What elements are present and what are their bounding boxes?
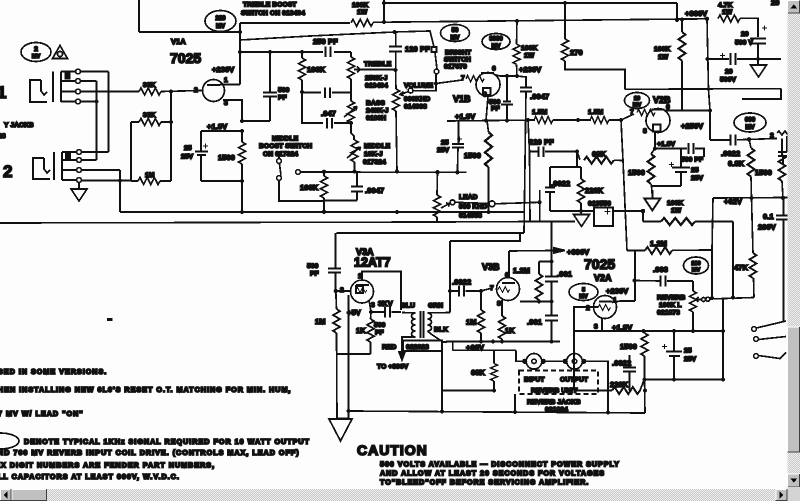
svg-text:MV: MV [451,36,460,42]
svg-text:SWITCH ON 013404: SWITCH ON 013404 [241,10,305,17]
resistor 1500 (right) [779,139,786,199]
svg-text:RED: RED [382,344,396,351]
wire vertical j1-j2 b [96,81,98,160]
svg-text:220: 220 [215,16,226,22]
junction dot [479,289,483,293]
junction dot [619,118,623,122]
ground (V2B cathode) [645,186,661,211]
junction dot [240,210,244,214]
svg-text:7025: 7025 [170,50,201,66]
pin labels V2A [586,297,617,331]
svg-text:MV: MV [692,268,701,274]
wire y241 link [450,233,520,241]
svg-text:100K: 100K [667,200,683,207]
wire between jacks [543,360,566,362]
svg-text:1W: 1W [357,9,368,16]
junction dot [721,329,725,333]
junction dot [238,30,242,34]
text 100K 1W (c) [667,200,683,215]
wire second drop [337,295,349,419]
bright switch contact square [432,47,437,52]
right edge switch contacts [752,321,786,359]
wire 60V lower rail [453,342,516,351]
svg-text:100K: 100K [300,183,319,192]
svg-text:BLU: BLU [401,303,415,310]
capacitor 250 PF [326,47,331,58]
capacitor 500 PF (V3A grid) [328,233,341,291]
wire screen node [707,58,781,60]
junction dot [576,118,580,122]
junction dot [300,90,304,94]
svg-text:7: 7 [461,75,465,82]
svg-text:013556: 013556 [588,201,611,208]
junction dot [94,99,98,103]
junction dot [675,18,679,22]
junction dot [731,295,735,299]
text 20 500V (b) [720,69,736,84]
svg-text:1M: 1M [145,172,155,179]
svg-text:0189H: 0189H [366,115,386,122]
capacitor 25/25V (V2B) [669,149,690,187]
long wire y222 [0,222,575,224]
text 4.7K 1W [718,2,733,16]
svg-text:25V: 25V [437,147,450,154]
text RED 022923 [382,344,429,351]
svg-text:47K: 47K [734,263,749,272]
wire tone return y121 [242,120,270,122]
wire jack2 c2 [82,159,97,161]
svg-text:1.2M: 1.2M [650,239,667,248]
svg-text:1W: 1W [524,53,535,60]
wire V2B mixer vertical [621,120,627,251]
text 100K 1W (V1B) [521,45,537,60]
svg-text:7: 7 [490,285,494,292]
junction dot [691,329,695,333]
wire x577 drop [576,152,578,168]
wire top-left vertical [138,0,140,32]
svg-text:1K: 1K [356,326,366,335]
capacitor 220 PF [530,147,578,158]
svg-text:TO"BLEED"OFF BEFORE SERVICING: TO"BLEED"OFF BEFORE SERVICING AMPLIFIER. [380,478,589,487]
svg-text:TREBLE: TREBLE [364,61,392,68]
svg-text:100K L: 100K L [659,302,682,309]
wire box ground stub [514,394,516,412]
junction dot [781,196,785,200]
dashed box reverb unit [519,371,598,395]
wire reverb return drop [722,299,724,380]
svg-text:.0022: .0022 [551,179,570,188]
junction dot [680,18,684,22]
wire +60V rail [446,341,560,343]
svg-text:.0022: .0022 [721,149,740,158]
junction dot [537,299,541,303]
tube V2A [594,296,617,319]
junction dot [721,377,725,381]
wire grid rise [621,114,634,120]
capacitor .0022 (V2B out) [710,135,777,146]
svg-text:1K: 1K [505,326,515,335]
resistor 1.5M (b) [590,117,609,124]
wire plate node down [709,111,711,141]
resistor 1M [138,178,160,185]
svg-text:500 V: 500 V [735,40,753,47]
svg-text:1: 1 [0,83,6,102]
reverb output jack [563,354,587,370]
junction dot [240,129,244,133]
svg-text:1: 1 [224,77,228,84]
wire +390V feed [509,250,554,253]
wire slope lower [302,92,323,123]
wire cathode bottom y181 [201,180,242,182]
resistor 1M (V3B) [478,291,485,342]
resistor 68K [577,152,622,164]
svg-text:100K: 100K [307,65,326,74]
vertical node wire x171 [170,92,172,182]
capacitor 25/25V (V1B) [452,121,464,173]
svg-text:1.5M: 1.5M [532,109,548,116]
wire 270 bend [565,61,625,89]
wire long rail y89 [625,88,781,91]
potentiometer LEAD [434,172,450,222]
svg-text:100K: 100K [352,2,368,9]
capacitor 500 PF (V2B) [655,143,704,157]
wire 1500 to bus [241,181,243,212]
svg-text:1W: 1W [671,208,682,215]
wire +360V corner [676,3,678,20]
reverb input jack [522,354,546,370]
svg-text:7: 7 [630,109,634,116]
wire lead to V2B grid [495,202,540,204]
svg-text:2: 2 [770,133,774,140]
wire V1A plate [220,84,240,86]
capacitor 560 PF 3KV [371,307,401,318]
arrow to +390V (red lead) [399,352,405,360]
junction dot [549,339,553,343]
svg-text:TREBLE BOOST: TREBLE BOOST [243,2,297,9]
wire V3B plate riser [508,251,510,278]
wire treble wiper to 120PF [360,69,396,71]
svg-text:.003: .003 [653,265,668,274]
horizontal scrollbar thumb [12,489,48,501]
junction dot [505,118,509,122]
junction dot [642,377,646,381]
input jack 1 body [30,80,47,102]
resistor 1K (V3B) [499,300,506,342]
junction dot [435,170,439,174]
wire B+ vertical [707,19,710,111]
wire short rail y99 [742,89,781,99]
junction dot [118,178,122,182]
svg-text:ON 017324: ON 017324 [263,151,298,158]
svg-text:500V: 500V [720,77,736,84]
svg-text:25: 25 [684,348,692,355]
svg-text:68K: 68K [592,150,607,159]
capacitor .0047 (mid) [351,172,363,201]
svg-text:100K: 100K [654,46,670,53]
wire controls rail y171.5 [305,171,467,173]
svg-text:OUTPUT: OUTPUT [560,377,589,384]
junction dot [434,81,438,85]
resistor 100K 1W (V1B plate) [513,21,520,76]
text BRIGHT SWITCH 017079 [444,50,472,71]
potentiometer BASS [344,101,357,140]
junction dot [169,120,173,124]
svg-text:V1A: V1A [171,37,186,46]
svg-text:4.7K: 4.7K [718,2,733,9]
wire jack1 c4 [81,101,97,103]
wire +62V rail [713,197,789,200]
wire reverb tap [710,298,754,300]
wire jack2 tip1 [82,151,109,153]
svg-text:.001: .001 [557,270,572,279]
svg-text:AND ALLOW AT LEAST 20 SECONDS: AND ALLOW AT LEAST 20 SECONDS FOR VOLTAG… [380,469,605,478]
bright switch lever [435,53,437,70]
text 500 PF (V1B) [489,99,501,113]
text MIDDLE BOOST SWITCH ON 017324 [259,136,312,159]
junction dot [549,299,553,303]
svg-text:.0047: .0047 [530,92,549,101]
svg-text:25V: 25V [684,356,697,363]
capacitor .003 [635,276,693,287]
svg-text:1.5M: 1.5M [588,109,604,116]
jack 2 pad [66,153,70,158]
svg-text:25: 25 [691,167,699,174]
svg-text:1M: 1M [466,318,477,327]
junction dot [440,409,444,413]
junction dot [268,50,272,54]
svg-text:500 PF: 500 PF [681,157,703,164]
svg-text:1500: 1500 [628,168,645,177]
svg-text:8: 8 [483,92,487,99]
text 25 25V (V2B) [691,167,704,182]
wire lower rail y379.5 [645,379,724,381]
wire cap a down [757,44,759,59]
potentiometer REVERB [690,281,702,331]
wire V2A grid left [574,307,598,331]
junction dot [382,20,386,24]
svg-text:3000: 3000 [489,37,503,43]
svg-text:HEN INSTALLING NEW 6L6'S RESET: HEN INSTALLING NEW 6L6'S RESET O.T. MATC… [0,385,291,394]
wire V3A grid [336,290,350,292]
svg-text:REVERB UNIT: REVERB UNIT [531,388,578,395]
resistor 1500 (V2A cathode) [641,331,648,380]
wire V1B cathode [486,97,488,121]
transformer bottom leads [402,331,451,352]
svg-text:1500: 1500 [620,342,637,351]
junction dot [238,50,242,54]
potentiometer TREBLE [348,52,361,101]
resistor 1.5M (a) [534,117,553,124]
svg-text:1500: 1500 [755,168,772,177]
text TREBLE BOOST SWITCH ON 013404 [241,2,305,18]
svg-text:TO +390V: TO +390V [377,364,409,371]
svg-text:INPUT: INPUT [524,377,545,384]
junction dot [563,1,567,5]
text 560 PF [374,322,386,337]
svg-text:1M: 1M [315,317,326,326]
svg-text:560: 560 [374,322,386,329]
junction dot [349,121,353,125]
wire box out [613,210,643,212]
svg-text:1500: 1500 [218,153,235,162]
resistor 220K (V2A) [574,380,644,394]
junction dot [491,339,495,343]
jack 1 frame [53,72,61,103]
wire V3A cathode [369,300,371,312]
oval callout 50 MV [441,25,470,42]
junction dot [708,108,712,112]
resistor 1M (V3A) [333,291,340,419]
wire between 1.5Ms [553,119,591,121]
transformer secondary [428,313,432,331]
svg-text:33K: 33K [143,82,156,89]
wire treble feed y52 [240,51,351,53]
junction dot [300,50,304,54]
jack1 contact stubs [61,72,76,102]
wire jack1 c2 [81,80,97,82]
text 100K 1W (V2B) [654,46,670,61]
ground (mixer) [644,190,660,211]
svg-text:3KV: 3KV [378,299,393,308]
svg-text:.047: .047 [321,109,336,118]
svg-text:MV: MV [745,124,755,131]
resistor 220K (a) [578,167,585,211]
svg-text:MV: MV [216,24,225,30]
svg-text:022923: 022923 [406,344,429,351]
junction dot [632,278,636,282]
wire GRN riser [449,241,451,313]
text 500 PF (V3A) [307,263,319,278]
capacitor .001 (lower) [545,316,558,342]
wire jack2 c4 [82,180,132,182]
wire cathode rail y120 [447,120,535,121]
resistor 1500 (V1A cathode) [239,131,246,181]
wire y167 [550,166,581,168]
svg-text:SED IN SOME VERSIONS.: SED IN SOME VERSIONS. [0,367,107,376]
capacitor .0022 (V2A) [623,355,636,391]
warning triangle [53,46,68,59]
wire down to bus [119,170,121,212]
wire V2A cathode [601,318,603,332]
svg-text:25: 25 [184,145,192,152]
svg-text:10: 10 [634,96,640,102]
transformer top leads [402,312,450,315]
svg-text:BOOST SWITCH: BOOST SWITCH [259,143,312,150]
capacitor .0022 (a) [545,167,555,211]
svg-text:PF: PF [310,271,319,278]
resistor 1.2M (V3B) [536,262,543,302]
wire mid cap bottom [324,200,357,202]
potentiometer VOLUME [393,70,414,171]
svg-text:250K-J: 250K-J [365,75,388,82]
capacitor 20 500V (b) [720,53,736,65]
svg-text:BLK: BLK [434,327,448,334]
resistor 1500 (V2B cathode) [648,149,656,187]
text 20 500V (a) [735,31,753,47]
junction dot [455,170,459,174]
wire plate riser x240 [239,23,241,85]
junction dot [240,119,244,123]
svg-text:25V: 25V [691,175,704,182]
svg-text:6: 6 [492,66,496,73]
wire to 20/500V cap [740,18,758,37]
resistor 1.2M (V2A feed) [627,247,712,254]
svg-text:+230V: +230V [606,287,628,296]
wire V2A plate [612,301,635,303]
resistor 6.8K [748,139,755,198]
svg-text:1.2M: 1.2M [513,266,530,275]
svg-text:200V: 200V [758,223,776,232]
wire jack out [583,361,608,412]
wire bottom rail [349,411,646,413]
svg-text:PF: PF [375,330,384,337]
vertical scrollbar track [788,0,800,489]
tube V3B [497,278,520,301]
capacitor .0022 (V3B grid) [450,286,481,297]
wire grid feed y233 [337,232,525,234]
ground (V3A) [329,419,352,441]
bright switch circle [434,69,439,74]
wire jack2 c3 [82,169,121,171]
wire 68K bottom [442,390,494,392]
jack 2 frame [54,152,62,180]
middle boost wiper contact [296,170,305,175]
wire V2A grid leak drop [573,331,575,391]
wire slope leads [301,52,303,92]
oval callout 3000 MV [482,34,510,51]
svg-text:500 VOLTS AVAILABLE — DISCONNE: 500 VOLTS AVAILABLE — DISCONNECT POWER S… [380,460,620,469]
svg-text:+60V: +60V [466,343,484,352]
junction dot [346,409,350,413]
dash mark [107,318,113,321]
capacitor 25/25V (V2A) [662,331,682,380]
svg-text:500: 500 [307,263,319,270]
wire V3B plate tap [520,301,552,303]
resistor grid stopper V1B [466,76,484,82]
wire jack feed riser [516,350,526,361]
text 500 PF (tone) [278,87,290,102]
svg-text:220K: 220K [585,186,604,195]
svg-text:8: 8 [643,128,647,135]
svg-text:MV: MV [633,103,642,109]
junction dot [492,388,496,392]
svg-text:+390V: +390V [567,248,589,257]
svg-text:014038: 014038 [404,104,427,111]
wire to V1A grid [161,91,202,92]
vertical scrollbar down button [788,474,800,487]
wire V2A plate riser [634,250,636,301]
wire jack1 signal [81,91,140,93]
svg-text:017324: 017324 [363,159,386,166]
svg-text:33K: 33K [143,112,156,119]
svg-text:120 PF: 120 PF [405,45,430,54]
resistor 100K 1W (c) [643,218,733,225]
junction dot [382,1,386,5]
capacitor 0.1 200V [776,198,790,322]
wire top rail to +360V [240,19,707,23]
svg-text:50: 50 [452,28,459,34]
oval partial note [0,433,19,449]
junction dot [395,210,399,214]
svg-text:PF: PF [491,106,500,113]
svg-text:MV: MV [32,54,41,60]
tube V1A [203,80,225,102]
capacitor 20 500V (a) [750,26,767,44]
wire grid stopper feed [436,80,462,84]
svg-text:20: 20 [725,69,733,76]
reverb wiper circles [702,297,710,301]
svg-text:28: 28 [0,133,6,140]
